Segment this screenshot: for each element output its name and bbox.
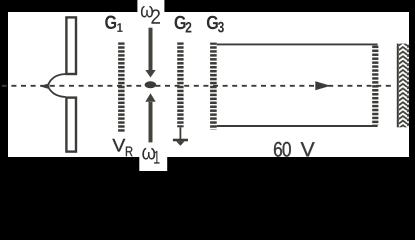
- cathode funnel upper curve: [48, 74, 65, 86]
- arrow omega2 down shaft: [149, 28, 153, 70]
- arrow omega1 up shaft: [149, 102, 153, 143]
- ground wire under G2: [179, 127, 181, 139]
- drift tube bottom wall: [217, 125, 378, 127]
- electrode lower plate: [66, 98, 76, 152]
- grid G1 column: [118, 42, 125, 132]
- electrode upper plate: [66, 17, 76, 74]
- label omega2: [141, 6, 160, 24]
- cathode tip arrowhead: [40, 84, 48, 89]
- collector screen left bar: [397, 44, 399, 128]
- omega1 label box: [139, 142, 167, 171]
- beam arrowhead in tube: [315, 81, 330, 90]
- label VR: [112, 139, 132, 156]
- interaction dot: [145, 81, 157, 88]
- collector chevron screen: [399, 44, 409, 128]
- drift tube top wall: [217, 43, 378, 45]
- label 60 V: [274, 142, 315, 157]
- ground arrowhead: [176, 141, 184, 146]
- label G2: [175, 16, 192, 33]
- label G1: [105, 16, 122, 32]
- wire: dashed beam axis: [2, 85, 391, 87]
- arrow omega1 up head: [145, 93, 155, 102]
- label omega1: [142, 148, 159, 164]
- ground bar: [173, 139, 188, 142]
- cathode funnel lower curve: [48, 86, 65, 97]
- omega2 label box: [137, 0, 164, 28]
- label G3: [207, 16, 224, 33]
- drift tube right grid wall: [372, 46, 378, 126]
- grid G3 column: [210, 43, 217, 130]
- white figure panel: [8, 12, 409, 157]
- grid G2 column: [177, 42, 183, 127]
- arrow omega2 down head: [145, 70, 155, 78]
